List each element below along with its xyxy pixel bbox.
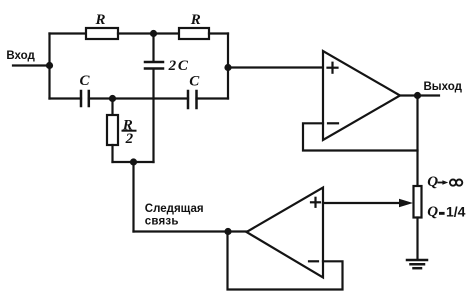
- resistor R1: [86, 28, 118, 39]
- node: op2 output junction: [224, 228, 231, 235]
- wire: feedback horizontal to op2 output: [134, 230, 248, 232]
- svg-text:2: 2: [168, 58, 177, 74]
- op2 + input sign: [311, 201, 320, 203]
- op1 + input sign: [328, 67, 338, 69]
- wire: feedback vertical: [132, 162, 134, 232]
- node: op1 input junction: [224, 64, 231, 71]
- svg-text:C: C: [189, 74, 200, 90]
- wire: op1 output: [400, 94, 439, 96]
- capacitor C1 plates: [80, 91, 83, 106]
- svg-text:1/4: 1/4: [446, 204, 466, 220]
- wire: op1 + input: [228, 66, 323, 68]
- wire: input lead: [13, 64, 50, 66]
- svg-text:Вход: Вход: [6, 50, 35, 62]
- wire: between R1 and R2: [118, 32, 179, 34]
- wire: lower right segment: [197, 97, 229, 99]
- op2 - input sign: [309, 260, 318, 262]
- label Q = 1/4 equals dash: [439, 212, 445, 215]
- op-amp U2 body: [247, 188, 324, 278]
- label R/2 fraction bar: [123, 130, 136, 132]
- svg-text:Выход: Выход: [424, 81, 463, 93]
- capacitor 2C top lead: [152, 34, 154, 61]
- potentiometer body: [414, 186, 422, 218]
- op-amp U1 body: [323, 51, 400, 140]
- svg-text:C: C: [80, 73, 91, 89]
- resistor R/2: [107, 115, 118, 145]
- node: input junction: [46, 62, 53, 69]
- capacitor 2C plates: [145, 61, 163, 64]
- ground symbol: [407, 259, 427, 262]
- wire: left vertical: [48, 34, 50, 99]
- wire: op1 feedback loop: [303, 123, 418, 150]
- wire: op2 feedback loop: [228, 232, 343, 290]
- label Q arrow: [438, 182, 444, 184]
- svg-text:Следящая: Следящая: [145, 203, 204, 215]
- svg-text:Q: Q: [427, 204, 438, 220]
- capacitor C2 plates: [187, 91, 190, 108]
- resistor R2: [179, 28, 209, 39]
- svg-text:C: C: [178, 58, 189, 74]
- svg-text:Q: Q: [427, 174, 438, 190]
- svg-text:R: R: [190, 12, 201, 28]
- node: R/2 top junction: [109, 95, 116, 102]
- op1 - input sign: [328, 122, 338, 124]
- wire: top right segment: [209, 32, 228, 34]
- resistor R/2 bottom lead: [111, 145, 113, 162]
- wire: lower middle segment: [89, 97, 188, 99]
- potentiometer wiper arrowhead: [399, 199, 413, 208]
- node: top center junction: [150, 30, 157, 37]
- svg-text:R: R: [95, 12, 106, 28]
- capacitor 2C bottom lead: [152, 70, 154, 163]
- svg-text:2: 2: [125, 131, 134, 147]
- svg-text:связь: связь: [145, 216, 179, 228]
- wire: right vertical: [227, 34, 229, 99]
- wire: output vertical down: [416, 96, 418, 187]
- wire: pot to ground: [416, 218, 418, 260]
- wire: top left segment: [50, 32, 87, 34]
- node: output junction: [414, 92, 421, 99]
- resistor R/2 top lead: [111, 99, 113, 116]
- wire: bottom node line: [113, 161, 154, 163]
- wire: lower left segment: [50, 97, 82, 99]
- wire: op2 + to potentiometer wiper: [323, 202, 403, 204]
- node: bottom node junction: [130, 158, 137, 165]
